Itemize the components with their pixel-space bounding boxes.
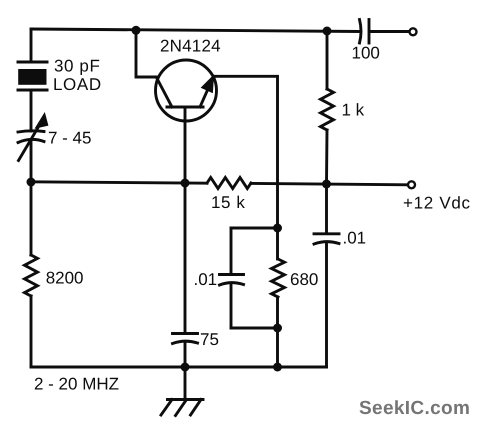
variable capacitor C1 7-45: [18, 113, 48, 160]
node ground junction: [181, 363, 190, 372]
wire middle rail down to bypass cap: [325, 184, 328, 233]
resistor R1 8200: [25, 255, 38, 296]
svg-text:2 - 20 MHZ: 2 - 20 MHZ: [34, 375, 119, 394]
wire 680 bottom to box and bottom rail: [276, 297, 279, 367]
wire base branch to 75 cap: [184, 183, 187, 333]
wire emitter network box left: [230, 228, 233, 274]
wire 680 branch top: [276, 228, 279, 259]
node top right junction: [323, 27, 332, 36]
svg-text:75: 75: [200, 330, 219, 349]
wire variable capacitor to middle rail: [30, 141, 33, 182]
svg-text:100: 100: [352, 44, 380, 63]
svg-text:.01: .01: [194, 270, 218, 289]
node bottom rail right junction: [273, 363, 282, 372]
node emitter network bottom junction: [273, 324, 282, 333]
wire crystal to variable capacitor: [30, 91, 33, 131]
wire coupling cap to output terminal: [370, 30, 409, 33]
wire emitter to right branch: [214, 76, 278, 228]
wire middle rail left segment: [31, 182, 207, 183]
wire box left lower: [230, 285, 233, 329]
svg-text:+12 Vdc: +12 Vdc: [403, 193, 471, 212]
svg-text:30 pF: 30 pF: [54, 57, 100, 76]
wire 75 cap to bottom rail: [184, 344, 187, 368]
wire middle rail right segment to +12 Vdc terminal: [251, 183, 408, 184]
wire emitter network box top: [231, 227, 278, 230]
node middle rail left junction: [27, 178, 36, 187]
wire collector branch vertical from top rail: [136, 30, 157, 77]
node emitter network top junction: [273, 224, 282, 233]
svg-text:SeekIC.com: SeekIC.com: [359, 398, 470, 419]
ground: [161, 400, 203, 416]
crystal Y1 30 pF LOAD: [18, 62, 47, 90]
terminal +12 Vdc: [408, 181, 415, 188]
svg-text:680: 680: [290, 270, 318, 289]
wire ground stem: [184, 367, 187, 399]
wire 1k branch top: [326, 31, 329, 89]
svg-text:7 - 45: 7 - 45: [48, 129, 91, 148]
svg-text:LOAD: LOAD: [53, 75, 102, 94]
wire top-left vertical down to crystal: [30, 29, 33, 61]
svg-text:2N4124: 2N4124: [160, 37, 221, 56]
wire bypass cap to bottom rail corner: [325, 244, 328, 368]
resistor R3 1 k: [321, 89, 334, 130]
node middle rail right junction: [322, 180, 331, 189]
svg-text:8200: 8200: [46, 269, 84, 288]
node top collector junction: [132, 26, 141, 35]
svg-text:15 k: 15 k: [211, 193, 246, 212]
capacitor C3 100 coupling: [360, 20, 370, 44]
capacitor C2 .01 right bypass: [314, 234, 339, 244]
wire top horizontal from left corner to coupling cap: [31, 29, 359, 32]
node base junction: [181, 179, 190, 188]
wire base down through middle rail: [184, 108, 187, 183]
svg-text:.01: .01: [343, 229, 367, 248]
capacitor C5 75: [173, 334, 198, 344]
wire left vertical to 8200: [30, 182, 33, 255]
wire emitter network box bottom: [231, 327, 278, 330]
capacitor C4 .01 emitter: [220, 275, 244, 286]
svg-text:1 k: 1 k: [342, 101, 365, 120]
wire bottom rail: [31, 366, 327, 369]
resistor R4 680: [272, 259, 285, 297]
resistor R2 15 k: [207, 178, 251, 189]
transistor Q1 2N4124: [156, 60, 217, 121]
wire 8200 to bottom rail: [30, 296, 33, 367]
wire 1k bottom to middle rail: [325, 130, 328, 184]
terminal output: [410, 28, 417, 35]
